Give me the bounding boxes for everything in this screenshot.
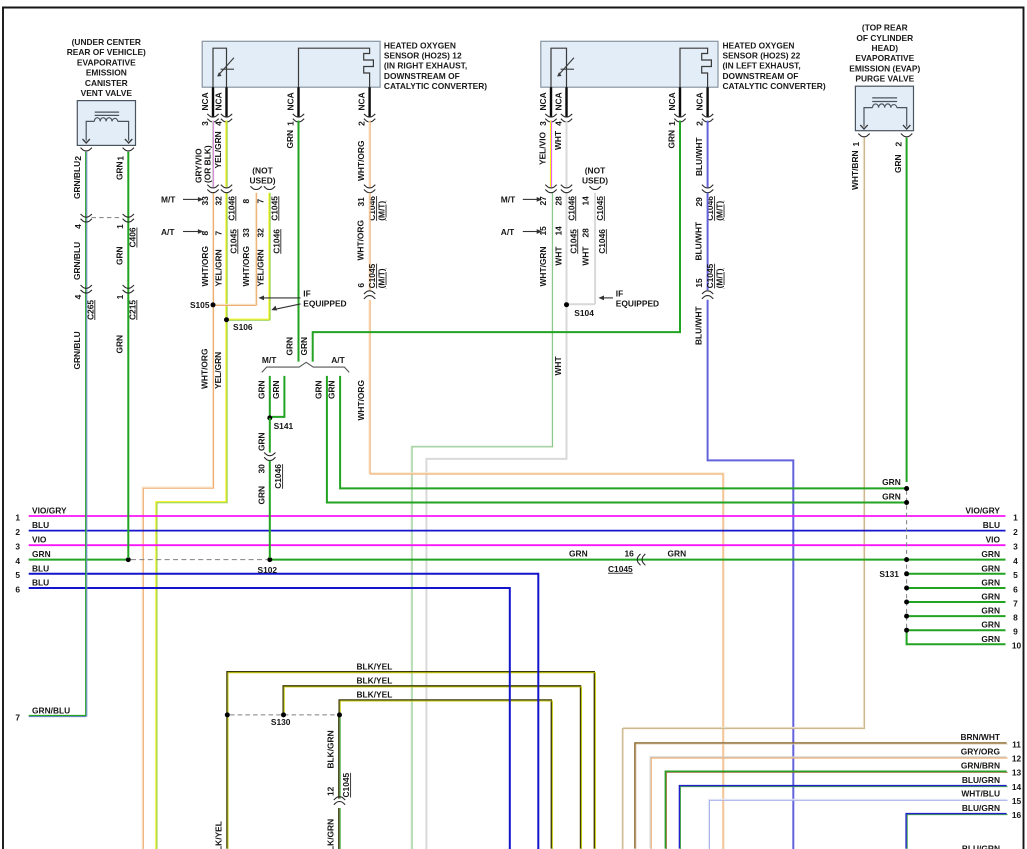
svg-text:8: 8 [241, 199, 251, 204]
svg-text:WHT/BLU: WHT/BLU [961, 789, 1000, 799]
heater symbol (diagonal arrow with bar) [558, 58, 574, 76]
wire WHT pin 4 top segment [566, 121, 568, 188]
svg-text:14: 14 [553, 226, 563, 236]
svg-text:GRN/BLU: GRN/BLU [72, 331, 82, 369]
svg-text:15: 15 [1012, 796, 1022, 806]
wire VIO row 3 bus [29, 544, 1006, 546]
svg-text:GRN: GRN [569, 548, 588, 558]
svg-text:S130: S130 [271, 717, 291, 727]
wire GRN S141 to C1046 pin30 [269, 418, 271, 453]
svg-text:15: 15 [694, 278, 704, 288]
svg-text:2: 2 [893, 141, 903, 146]
svg-text:GRN: GRN [327, 380, 337, 399]
svg-text:EVAPORATIVE: EVAPORATIVE [855, 53, 914, 63]
svg-text:WHT: WHT [553, 246, 563, 266]
wire BLU/WHT (HO2S-22 pin2, below C1045 M/T, jog right at y460.4, to bottom) [708, 300, 794, 849]
svg-text:1: 1 [851, 141, 861, 146]
svg-text:(IN LEFT EXHAUST,: (IN LEFT EXHAUST, [723, 61, 801, 71]
wire GRN pin 1 (down to M/T A/T brace) [298, 121, 300, 362]
wire WHT/BLU row 15 (right edge, corner down to bottom) [708, 799, 1007, 849]
svg-text:GRN: GRN [882, 491, 901, 501]
svg-text:GRN/BLU: GRN/BLU [72, 161, 82, 199]
wire row 4 dashed link (C408 pin to S102) [131, 559, 267, 561]
svg-text:NCA: NCA [356, 92, 366, 110]
GRN labels under brace [256, 380, 336, 399]
svg-text:C1046: C1046 [597, 229, 607, 254]
svg-text:GRN: GRN [981, 620, 1000, 630]
svg-text:GRN: GRN [668, 548, 687, 558]
svg-text:WHT/ORG: WHT/ORG [356, 141, 366, 181]
svg-text:PURGE VALVE: PURGE VALVE [855, 74, 914, 84]
svg-text:A/T: A/T [161, 227, 175, 237]
node S104 [564, 302, 569, 307]
wire WHT (HO2S-22 pin4 circuit, below S104, jog left at y459.4, to bottom) [426, 193, 566, 849]
wire BLK/YEL A (S130 left, up and right, to bottom) [227, 672, 595, 849]
svg-text:31: 31 [356, 197, 366, 207]
node S130 dots [225, 712, 230, 717]
coil lead frame with pin arrows [864, 108, 907, 127]
svg-text:WHT: WHT [553, 356, 563, 376]
left edge row labels and numbers [15, 506, 67, 595]
svg-text:1: 1 [15, 512, 20, 522]
sensor element loop (pins 1-2) with zigzag [680, 48, 711, 87]
svg-text:C215: C215 [127, 300, 137, 320]
svg-text:14: 14 [581, 196, 591, 206]
svg-text:4: 4 [15, 556, 20, 566]
svg-text:GRN: GRN [32, 549, 51, 559]
svg-text:12: 12 [1012, 754, 1022, 764]
svg-text:5: 5 [15, 570, 20, 580]
svg-text:OF CYLINDER: OF CYLINDER [856, 33, 913, 43]
svg-text:BLU/WHT: BLU/WHT [694, 306, 704, 345]
svg-text:2: 2 [15, 527, 20, 537]
svg-text:(OR BLK): (OR BLK) [203, 145, 213, 183]
svg-text:33: 33 [241, 228, 251, 238]
node S105 [211, 302, 216, 307]
svg-text:GRN: GRN [981, 549, 1000, 559]
svg-text:3: 3 [200, 121, 210, 126]
svg-text:32: 32 [213, 196, 223, 206]
svg-text:EQUIPPED: EQUIPPED [616, 299, 659, 309]
svg-text:DOWNSTREAM OF: DOWNSTREAM OF [723, 71, 799, 81]
svg-text:4: 4 [73, 294, 83, 299]
wire GRY/VIO (OR BLK) pin 3 top segment [212, 121, 213, 188]
svg-text:C1045: C1045 [341, 772, 351, 797]
wire GRN M/T right branch (elbow into S141) [272, 376, 284, 417]
svg-text:IF: IF [303, 288, 310, 298]
pin numbers 3 4 1 2 [538, 121, 705, 126]
svg-text:USED): USED) [249, 176, 275, 186]
wire GRN row 4 left segment [29, 559, 129, 561]
svg-text:10: 10 [1012, 641, 1022, 651]
svg-text:11: 11 [1012, 739, 1021, 749]
svg-text:YEL/VIO: YEL/VIO [537, 131, 547, 165]
wire BRN/WHT row 11 (right edge, corner down to bottom) [635, 743, 1008, 849]
svg-text:7: 7 [15, 712, 20, 722]
wire GRN row 10 (elbow from S131 chain) [907, 630, 1006, 644]
wire colour labels below connector [200, 246, 266, 286]
svg-text:4: 4 [213, 121, 223, 126]
wire GRN row 4 middle segment (S102 to C1045 pin16) [270, 559, 1006, 561]
svg-text:(M/T): (M/T) [377, 201, 387, 221]
svg-text:8: 8 [200, 231, 210, 236]
svg-text:CANISTER: CANISTER [85, 78, 128, 88]
svg-text:S105: S105 [190, 300, 210, 310]
heater element loop (pins 3-4) [551, 48, 567, 87]
NCA labels [538, 92, 705, 110]
svg-text:WHT/ORG: WHT/ORG [241, 246, 251, 286]
wire BLK/YEL B (S130 middle, up and right, to bottom) [283, 686, 581, 849]
svg-text:1: 1 [115, 224, 125, 229]
wire BLK/YEL C horizontal (S130 right, up and right, to bottom) [339, 700, 552, 849]
pin stubs HO2S 12 [213, 87, 370, 117]
svg-text:C406: C406 [128, 227, 138, 247]
wire BLU/WHT pin 2 top segment [707, 121, 709, 188]
solenoid coil winding [94, 118, 118, 122]
svg-text:WHT: WHT [553, 130, 563, 150]
right edge row labels and numbers 11-16 [960, 732, 1021, 820]
svg-text:BRN/WHT: BRN/WHT [960, 732, 1000, 742]
svg-text:S131: S131 [879, 569, 899, 579]
pin cups below purge valve [858, 134, 869, 137]
wire BLU/WHT pin2: C1046(M/T) connector [702, 185, 713, 193]
component box: HO2S 12 [202, 41, 380, 87]
svg-text:VENT VALVE: VENT VALVE [81, 88, 133, 98]
svg-text:S106: S106 [233, 322, 253, 332]
node S106 [224, 317, 229, 322]
svg-text:BLU/WHT: BLU/WHT [694, 137, 704, 176]
svg-text:1: 1 [667, 121, 677, 126]
svg-text:VIO: VIO [32, 535, 47, 545]
svg-text:NCA: NCA [667, 92, 677, 110]
svg-text:S141: S141 [274, 421, 294, 431]
svg-text:(M/T): (M/T) [715, 268, 725, 288]
svg-text:WHT/GRN: WHT/GRN [538, 246, 548, 286]
svg-text:EQUIPPED: EQUIPPED [303, 299, 346, 309]
pin stubs HO2S 22 [551, 87, 708, 117]
svg-text:C1046: C1046 [226, 196, 236, 221]
svg-text:7: 7 [1013, 598, 1018, 608]
svg-text:NCA: NCA [213, 92, 223, 110]
svg-text:BLK/GRN: BLK/GRN [326, 819, 336, 849]
connector pin numbers top row (M/T) 33 32 8 7 [200, 196, 280, 221]
svg-text:2: 2 [1013, 527, 1018, 537]
svg-text:3: 3 [538, 121, 548, 126]
svg-text:IF: IF [616, 288, 623, 298]
svg-text:NCA: NCA [538, 92, 548, 110]
wire GRN C1046 pin30 to S102 [269, 461, 271, 558]
svg-text:(NOT: (NOT [252, 166, 273, 176]
svg-text:A/T: A/T [501, 227, 515, 237]
connector pin numbers top row (M/T) 27 28 14 [538, 196, 605, 221]
wire YEL/VIO pin 3 top segment [550, 121, 551, 188]
svg-text:M/T: M/T [262, 355, 277, 365]
heater element loop (pins 3-4) [213, 48, 227, 87]
solenoid coil core lines [872, 98, 897, 102]
svg-text:BLU: BLU [983, 520, 1000, 530]
svg-text:(UNDER CENTER: (UNDER CENTER [72, 37, 141, 47]
wire WHT/ORG main (HO2S-12 pin3 circuit, S105 down, jog left, to bottom) [142, 193, 213, 849]
wire GRN pin 1 (left jog down to brace) [313, 121, 680, 362]
svg-text:M/T: M/T [501, 195, 516, 205]
svg-text:SENSOR (HO2S) 22: SENSOR (HO2S) 22 [723, 51, 801, 61]
svg-text:GRN: GRN [256, 432, 266, 451]
svg-text:GRN: GRN [115, 335, 125, 354]
wire GRN vent valve pin 1 (down to row 4 junction) [127, 152, 129, 558]
pin connector cups (NCA) [545, 114, 556, 122]
node S141 [267, 415, 272, 420]
svg-text:(TOP REAR: (TOP REAR [862, 23, 908, 33]
wire GRN A/T right branch (brace to S131 junction) [340, 376, 905, 489]
wire BLU row 2 bus [29, 530, 1006, 532]
heater symbol (diagonal arrow with bar) [218, 58, 234, 76]
svg-text:GRN: GRN [115, 161, 125, 180]
svg-text:6: 6 [356, 283, 366, 288]
svg-text:EVAPORATIVE: EVAPORATIVE [77, 57, 136, 67]
wire GRN M/T left branch (brace to S141) [269, 376, 271, 416]
svg-text:GRN: GRN [981, 606, 1000, 616]
svg-text:DOWNSTREAM OF: DOWNSTREAM OF [384, 71, 460, 81]
svg-text:5: 5 [1013, 570, 1018, 580]
wire GRN (purge valve pin2 down to S131 top junction) [906, 138, 908, 482]
component box: EVAP purge valve [855, 86, 913, 131]
svg-text:GRN/BLU: GRN/BLU [72, 242, 82, 280]
svg-text:C265: C265 [85, 300, 95, 320]
svg-text:8: 8 [1013, 612, 1018, 622]
svg-text:CATALYTIC CONVERTER): CATALYTIC CONVERTER) [384, 81, 487, 91]
svg-text:WHT/ORG: WHT/ORG [200, 246, 210, 286]
svg-text:VIO: VIO [986, 535, 1001, 545]
connector C215 (right wire) [123, 285, 134, 293]
svg-text:GRN: GRN [981, 578, 1000, 588]
wire WHT/ORG pin2: C1046(M/T) connector [364, 185, 375, 193]
wire WHT/GRN (HO2S-22 pin3 circuit, jog left at y446, to bottom) [411, 193, 553, 849]
sensor element loop (pins 1-2) with zigzag [299, 48, 374, 87]
svg-text:(NOT: (NOT [585, 166, 606, 176]
svg-text:CATALYTIC CONVERTER): CATALYTIC CONVERTER) [723, 81, 826, 91]
svg-text:33: 33 [200, 196, 210, 206]
svg-text:WHT/ORG: WHT/ORG [356, 220, 366, 260]
S130 splice dashed tie [230, 714, 337, 716]
svg-text:GRN: GRN [256, 380, 266, 399]
wire YEL/GRN not-used stub (S106 riser) [227, 193, 271, 320]
svg-text:GRN: GRN [981, 563, 1000, 573]
svg-text:BLU: BLU [32, 520, 49, 530]
evaporative emission canister vent valve caption [67, 37, 146, 98]
svg-text:9: 9 [1013, 627, 1018, 637]
svg-text:A/T: A/T [331, 355, 345, 365]
svg-text:GRN: GRN [256, 486, 266, 505]
svg-text:GRN: GRN [981, 634, 1000, 644]
svg-text:REAR OF VEHICLE): REAR OF VEHICLE) [67, 47, 146, 57]
svg-text:GRN: GRN [115, 246, 125, 265]
connector C1046/C1045 cups on pins 3-4 wires [545, 185, 556, 193]
svg-text:EMISSION (EVAP): EMISSION (EVAP) [849, 63, 920, 73]
wire YEL/GRN main (HO2S-12 pin4 circuit, S106 down, jog left, to bottom) [156, 193, 227, 849]
wire WHT not-used stub (S104 riser) [567, 193, 596, 304]
svg-text:12: 12 [326, 786, 336, 796]
solenoid coil core lines [95, 112, 119, 115]
pin cups below vent valve [81, 148, 92, 151]
evaporative emission purge valve caption [849, 23, 920, 84]
svg-text:BLK/YEL: BLK/YEL [214, 821, 224, 849]
component box: HO2S 22 [541, 41, 718, 87]
heated oxygen sensor HO2S 22 caption [723, 40, 826, 91]
right edge row labels and numbers 1-10 [965, 506, 1021, 651]
heated oxygen sensor HO2S 12 caption [384, 40, 487, 91]
svg-text:C1045: C1045 [228, 229, 238, 254]
svg-text:C1045: C1045 [568, 229, 578, 254]
svg-text:1: 1 [115, 294, 125, 299]
svg-text:HEATED OXYGEN: HEATED OXYGEN [384, 40, 456, 50]
wire GRN A/T left branch (brace to S131 junction) [327, 376, 905, 503]
svg-text:16: 16 [625, 548, 635, 558]
svg-text:29: 29 [694, 197, 704, 207]
svg-text:GRN: GRN [285, 337, 295, 356]
M/T A/T splice brace [262, 362, 349, 372]
svg-text:(IN RIGHT EXHAUST,: (IN RIGHT EXHAUST, [384, 61, 467, 71]
wire WHT/ORG (HO2S-12 pin2, below C1045 M/T, jog right at y473.5, to bottom) [369, 300, 724, 849]
svg-text:HEAD): HEAD) [872, 43, 899, 53]
svg-text:1: 1 [1013, 512, 1018, 522]
coil lead frame with pin arrows [86, 121, 128, 140]
connector pin numbers bottom row (A/T) 8 7 33 32 [200, 228, 282, 254]
wire GRN/BRN row 13 (right edge, corner down to bottom) [665, 771, 1007, 849]
svg-text:YEL/GRN: YEL/GRN [213, 249, 223, 286]
svg-text:GRN: GRN [893, 154, 903, 173]
svg-text:NCA: NCA [285, 92, 295, 110]
svg-text:EMISSION: EMISSION [86, 68, 127, 78]
svg-text:BLU: BLU [32, 563, 49, 573]
svg-text:GRN: GRN [981, 592, 1000, 602]
svg-text:BLU/GRN: BLU/GRN [962, 844, 1000, 849]
svg-text:C1045: C1045 [595, 196, 605, 221]
svg-text:28: 28 [581, 228, 591, 238]
svg-text:1: 1 [115, 156, 125, 161]
svg-text:BLU: BLU [32, 578, 49, 588]
svg-text:BLU/GRN: BLU/GRN [962, 775, 1000, 785]
svg-text:NCA: NCA [553, 92, 563, 110]
wire BLU/GRN row 14 (right edge, corner down to bottom) [679, 786, 1007, 849]
pin numbers 3 4 1 2 [200, 121, 367, 126]
svg-text:C1046: C1046 [273, 464, 283, 489]
svg-text:NCA: NCA [694, 92, 704, 110]
svg-text:28: 28 [553, 196, 563, 206]
svg-text:6: 6 [1013, 584, 1018, 594]
svg-text:WHT/ORG: WHT/ORG [356, 380, 366, 420]
wire GRN row 6 right stub [907, 587, 1006, 589]
S131 splice dashed chain [906, 491, 908, 629]
svg-text:3: 3 [15, 542, 20, 552]
svg-text:13: 13 [1012, 768, 1022, 778]
svg-text:YEL/GRN: YEL/GRN [213, 131, 223, 168]
wire WHT/ORG pin 2 top segment [369, 121, 370, 188]
svg-text:14: 14 [1012, 782, 1022, 792]
wire colour labels below connector [538, 246, 591, 287]
svg-text:BLU/WHT: BLU/WHT [694, 221, 704, 260]
svg-text:NCA: NCA [200, 92, 210, 110]
svg-text:(M/T): (M/T) [715, 201, 725, 221]
wire GRN row 7 right stub [907, 601, 1006, 603]
svg-text:GRN/BRN: GRN/BRN [961, 760, 1000, 770]
connector C406 (both wires, dashed tie) [81, 214, 92, 222]
svg-text:BLK/YEL: BLK/YEL [357, 690, 393, 700]
svg-text:USED): USED) [582, 176, 608, 186]
wire YEL/GRN pin 4 top segment [226, 121, 227, 188]
svg-text:BLK/YEL: BLK/YEL [357, 676, 393, 686]
svg-text:15: 15 [538, 226, 548, 236]
connector C1045 pin 16 inline (row 4) [569, 548, 686, 573]
svg-text:27: 27 [538, 196, 548, 206]
node S131 junction dots [904, 486, 909, 633]
svg-text:C1046: C1046 [271, 229, 281, 254]
svg-text:GRY/ORG: GRY/ORG [961, 746, 1000, 756]
connector C1046 pin 30 [264, 453, 275, 461]
svg-text:6: 6 [15, 584, 20, 594]
svg-text:GRN: GRN [667, 130, 677, 149]
svg-text:2: 2 [73, 156, 83, 161]
wire VIO/GRY row 1 bus [29, 515, 1006, 517]
svg-text:30: 30 [256, 464, 266, 474]
svg-text:2: 2 [694, 121, 704, 126]
svg-text:SENSOR (HO2S) 12: SENSOR (HO2S) 12 [384, 51, 462, 61]
wire BLU/GRN row 16 (right edge, corner down to bottom) [906, 814, 1008, 849]
svg-text:GRN/BLU: GRN/BLU [32, 706, 70, 716]
svg-text:3: 3 [1013, 542, 1018, 552]
wire WHT/BRN (purge valve pin1 down, jog left at y728, to bottom) [622, 138, 864, 849]
NCA labels [200, 92, 367, 110]
svg-text:BLK/GRN: BLK/GRN [326, 730, 336, 768]
svg-text:S102: S102 [258, 565, 278, 575]
wire GRY/ORG row 12 (right edge, corner down to bottom) [650, 757, 1007, 849]
svg-text:7: 7 [213, 231, 223, 236]
svg-text:4: 4 [553, 121, 563, 126]
svg-text:GRN: GRN [271, 380, 281, 399]
svg-text:YEL/GRN: YEL/GRN [213, 352, 223, 389]
svg-text:M/T: M/T [161, 195, 176, 205]
svg-text:C1046: C1046 [566, 196, 576, 221]
svg-text:(M/T): (M/T) [377, 268, 387, 288]
connector C265 (left wire) [81, 285, 92, 293]
pin connector cups (NCA) [207, 114, 218, 122]
wire GRN/BLU vent valve pin 2 (upper segment) [29, 152, 87, 717]
wire GRN row 9 right stub [907, 629, 1006, 631]
svg-text:S104: S104 [574, 308, 594, 318]
wire GRN row 8 right stub [907, 615, 1006, 617]
connector C1046/C1045 cups on pins 3-4 wires [207, 185, 218, 193]
svg-text:WHT/ORG: WHT/ORG [200, 349, 210, 389]
wire GRN row 5 right stub [907, 573, 1006, 575]
node S102 dot and dot at vent valve GRN junction [126, 557, 131, 562]
wire BLU row 5 (left, corner down to bottom) [29, 574, 539, 849]
svg-text:WHT: WHT [581, 246, 591, 266]
svg-text:WHT/BRN: WHT/BRN [850, 150, 860, 190]
wire BLK/GRN (below S130 C, through C1045 pin12, to bottom) [339, 715, 340, 849]
svg-text:GRN: GRN [313, 380, 323, 399]
svg-text:2: 2 [356, 121, 366, 126]
svg-text:4: 4 [73, 224, 83, 229]
solenoid coil winding [873, 104, 897, 108]
connector pin numbers bottom row (A/T) 15 14 28 [538, 226, 607, 254]
svg-text:GRN: GRN [285, 130, 295, 149]
svg-text:BLK/YEL: BLK/YEL [357, 661, 393, 671]
svg-text:4: 4 [1013, 556, 1018, 566]
component box: EVAP canister vent valve [77, 101, 135, 146]
svg-text:1: 1 [285, 121, 295, 126]
svg-text:C1045: C1045 [608, 564, 633, 574]
svg-text:GRN: GRN [299, 337, 309, 356]
svg-text:GRN: GRN [882, 477, 901, 487]
